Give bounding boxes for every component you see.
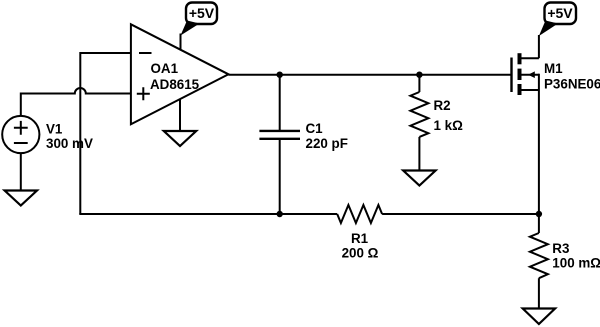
wire feedback vertical <box>79 52 81 214</box>
svg-text:220 pF: 220 pF <box>306 136 348 151</box>
svg-text:+5V: +5V <box>547 5 573 21</box>
wire R2 top <box>418 75 420 92</box>
junction node C1 bottom <box>277 211 283 217</box>
svg-text:R3: R3 <box>552 241 569 256</box>
wire R2 bottom <box>418 137 420 171</box>
capacitor C1 <box>259 121 348 151</box>
svg-text:V1: V1 <box>46 121 63 136</box>
wire op-amp output to M1 gate <box>229 74 511 76</box>
wire R3 top <box>538 214 540 233</box>
svg-text:200 Ω: 200 Ω <box>342 246 379 261</box>
junction node R2 top <box>416 72 422 78</box>
svg-text:100 mΩ: 100 mΩ <box>552 256 600 271</box>
ground below R3 <box>523 309 555 325</box>
junction node M1 source / R3 <box>536 211 542 217</box>
svg-text:1 kΩ: 1 kΩ <box>434 118 464 133</box>
junction node C1 top <box>277 72 283 78</box>
wire op-amp ground <box>179 99 181 131</box>
svg-text:C1: C1 <box>306 121 324 136</box>
resistor R1 <box>337 205 382 261</box>
wire R3 bottom <box>538 278 540 308</box>
wire M1 source drop <box>538 90 540 214</box>
svg-text:M1: M1 <box>544 61 563 76</box>
voltage source V1 <box>2 116 93 153</box>
transistor M1 (N-MOSFET) <box>512 53 600 95</box>
wire M1 drain riser <box>538 35 540 58</box>
svg-text:OA1: OA1 <box>151 61 179 76</box>
wire V1 bottom <box>20 154 22 191</box>
svg-text:P36NE06: P36NE06 <box>544 77 600 92</box>
wire from V1 top to op-amp + input (with hop over feedback line) <box>21 88 131 116</box>
resistor R2 <box>410 92 463 137</box>
wire op-amp power <box>180 34 182 50</box>
wire op-amp - input <box>80 52 131 54</box>
svg-text:+5V: +5V <box>189 5 215 21</box>
svg-text:300 mV: 300 mV <box>46 136 93 151</box>
wire bottom rail right (R1 to M1 source node) <box>382 213 539 215</box>
ground below V1 <box>5 191 37 206</box>
svg-text:AD8615: AD8615 <box>150 77 200 92</box>
svg-text:R2: R2 <box>434 98 451 113</box>
wire C1 top <box>279 75 281 130</box>
ground below op-amp <box>164 131 196 146</box>
op-amp OA1 <box>131 24 229 124</box>
wire bottom rail left (to R1) <box>79 213 337 215</box>
resistor R3 <box>530 233 600 278</box>
power flag +5V (M1 drain) <box>539 3 576 37</box>
ground below R2 <box>403 171 435 186</box>
power flag +5V (op-amp) <box>181 3 218 36</box>
svg-text:R1: R1 <box>351 231 369 246</box>
wire C1 bottom <box>279 140 281 214</box>
